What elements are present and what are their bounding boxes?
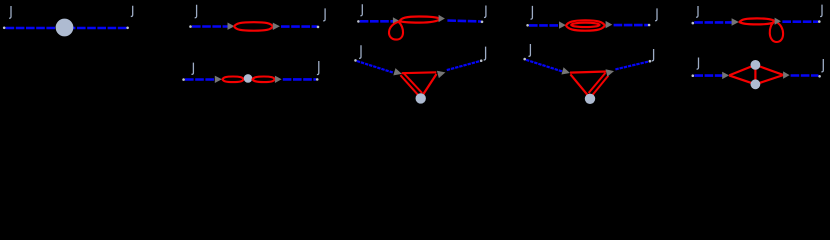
arrow A5L (732, 18, 739, 25)
wire: red edge bottom blob-V2 D5b (755, 75, 783, 84)
arrow A3R (439, 15, 445, 22)
wire: dashed diagonal D3b right (447, 61, 480, 70)
wire: dashed line D3 left (360, 20, 394, 23)
label j (D3 left) (360, 4, 362, 16)
arrow A3bL (393, 68, 403, 77)
label j (D5b right) (821, 59, 823, 72)
wire: dashed line D4 left (529, 24, 559, 27)
arrow A2bL (215, 76, 222, 83)
wire: dashed photon/current line D1 (6, 27, 127, 30)
label j (D4b right) (652, 49, 654, 61)
label j (D2 right) (323, 8, 325, 20)
label j (D2b right) (317, 61, 319, 75)
wire: dashed line D5 left (694, 21, 732, 24)
label j (D2b left) (192, 63, 194, 75)
arrow A2bR (275, 76, 282, 83)
wire: red edge V1-top blob D5b (729, 65, 755, 76)
node j (D5b right sink dot) (818, 75, 821, 78)
node j (D5b left source dot) (692, 74, 695, 77)
loop L5b: tadpole loop at right vertex (770, 22, 783, 42)
label j (D4 left) (531, 6, 533, 19)
wire: dashed diagonal D3b left (357, 61, 393, 73)
node j (D3b left source dot) (354, 59, 357, 62)
node j (D1 left source dot) (3, 27, 6, 30)
blob B5b-top (751, 60, 761, 70)
loop L2: quark bubble (234, 22, 273, 31)
node j (D2b left source dot) (182, 78, 185, 81)
loop L2b2: right bubble (253, 77, 275, 83)
wire: dashed line D5b left (694, 74, 722, 77)
node j (D4 left source dot) (526, 24, 529, 27)
wire: red doubled right edge (outer) D4b (592, 76, 608, 96)
loop L5a: quark bubble (740, 18, 776, 24)
wire: red doubled left edge (outer) D3b (400, 75, 418, 95)
wire: red left edge D4b (570, 74, 587, 95)
node j (D4b left source dot) (523, 58, 526, 61)
arrow A4bR (606, 67, 615, 76)
loop L2b1: left bubble (222, 77, 243, 83)
arrow A4L (559, 21, 566, 28)
wire: red right edge D3b (423, 74, 437, 95)
wire: red vertical gluon line between blobs D5b (754, 66, 756, 83)
label j (D3b right) (484, 47, 486, 60)
label j (D4 right) (655, 8, 657, 20)
wire: red edge V1-bottom blob D5b (729, 75, 755, 84)
arrow A2L (228, 23, 235, 30)
label j (D3 right) (484, 6, 486, 18)
label j (D1 left) (9, 6, 11, 18)
wire: dashed line D4 right (614, 24, 649, 27)
label j (D2 left) (195, 5, 197, 18)
wire: red edge top blob-V2 D5b (755, 65, 783, 75)
wire: red doubled right edge (inner) D4b (589, 73, 606, 93)
arrow A4bL (561, 67, 571, 76)
loop L3b: tadpole loop at left vertex (389, 21, 403, 39)
node j (D2b right sink dot) (316, 78, 319, 81)
node j (D3 right sink dot) (481, 21, 484, 24)
wire: dashed diagonal D4b left (526, 60, 563, 72)
node j (D4 right sink dot) (648, 24, 651, 27)
node j (D1 right sink dot) (126, 27, 129, 30)
blob B2b (central blob) (244, 74, 253, 83)
wire: dashed diagonal D4b right (615, 61, 649, 69)
arrow A5bR (783, 71, 790, 78)
node j (D2 right sink dot) (317, 26, 320, 29)
label j (D5 right) (820, 5, 822, 17)
node j (D4b right sink dot) (649, 60, 652, 63)
label j (D1 right) (131, 6, 133, 17)
label j (D5b left) (697, 58, 699, 70)
arrow A5R (775, 18, 781, 25)
wire: red doubled left edge (inner) D3b (403, 73, 422, 93)
arrow A3L (393, 17, 400, 24)
label j (D5 left) (696, 6, 698, 17)
node j (D3b right sink dot) (480, 59, 483, 62)
arrow A4R (606, 21, 613, 28)
wire: dashed line D2 right (281, 25, 318, 28)
wire: dashed line D5b right (791, 74, 819, 77)
loop L4b: inner bubble (571, 23, 599, 27)
loop L4a: outer bubble (566, 20, 605, 30)
wire: dashed line D3 right (447, 21, 481, 22)
blob B5b-bottom (751, 79, 761, 89)
loop L3a: quark bubble (400, 17, 441, 23)
wire: dashed line D5 right (782, 20, 818, 23)
label j (D4b left) (529, 44, 531, 56)
wire: red top edge D3b (402, 71, 437, 74)
blob B3b (416, 93, 426, 103)
wire: dashed line D2b right (283, 78, 316, 81)
arrow A3bR (437, 69, 447, 78)
wire: dashed line D2 left (192, 25, 229, 28)
arrow A5bL (722, 72, 729, 79)
arrow A2R (273, 23, 280, 30)
wire: red top edge D4b (570, 72, 606, 73)
node j (D2 left source dot) (189, 25, 192, 28)
node j (D5 left source dot) (692, 22, 695, 25)
label j (D3b left) (359, 45, 361, 58)
blob B4b (585, 94, 595, 104)
blob B1 (full propagator blob) (56, 19, 74, 37)
node j (D3 left source dot) (357, 20, 360, 23)
wire: dashed line D2b left (185, 78, 215, 81)
node j (D5 right sink dot) (818, 20, 821, 23)
